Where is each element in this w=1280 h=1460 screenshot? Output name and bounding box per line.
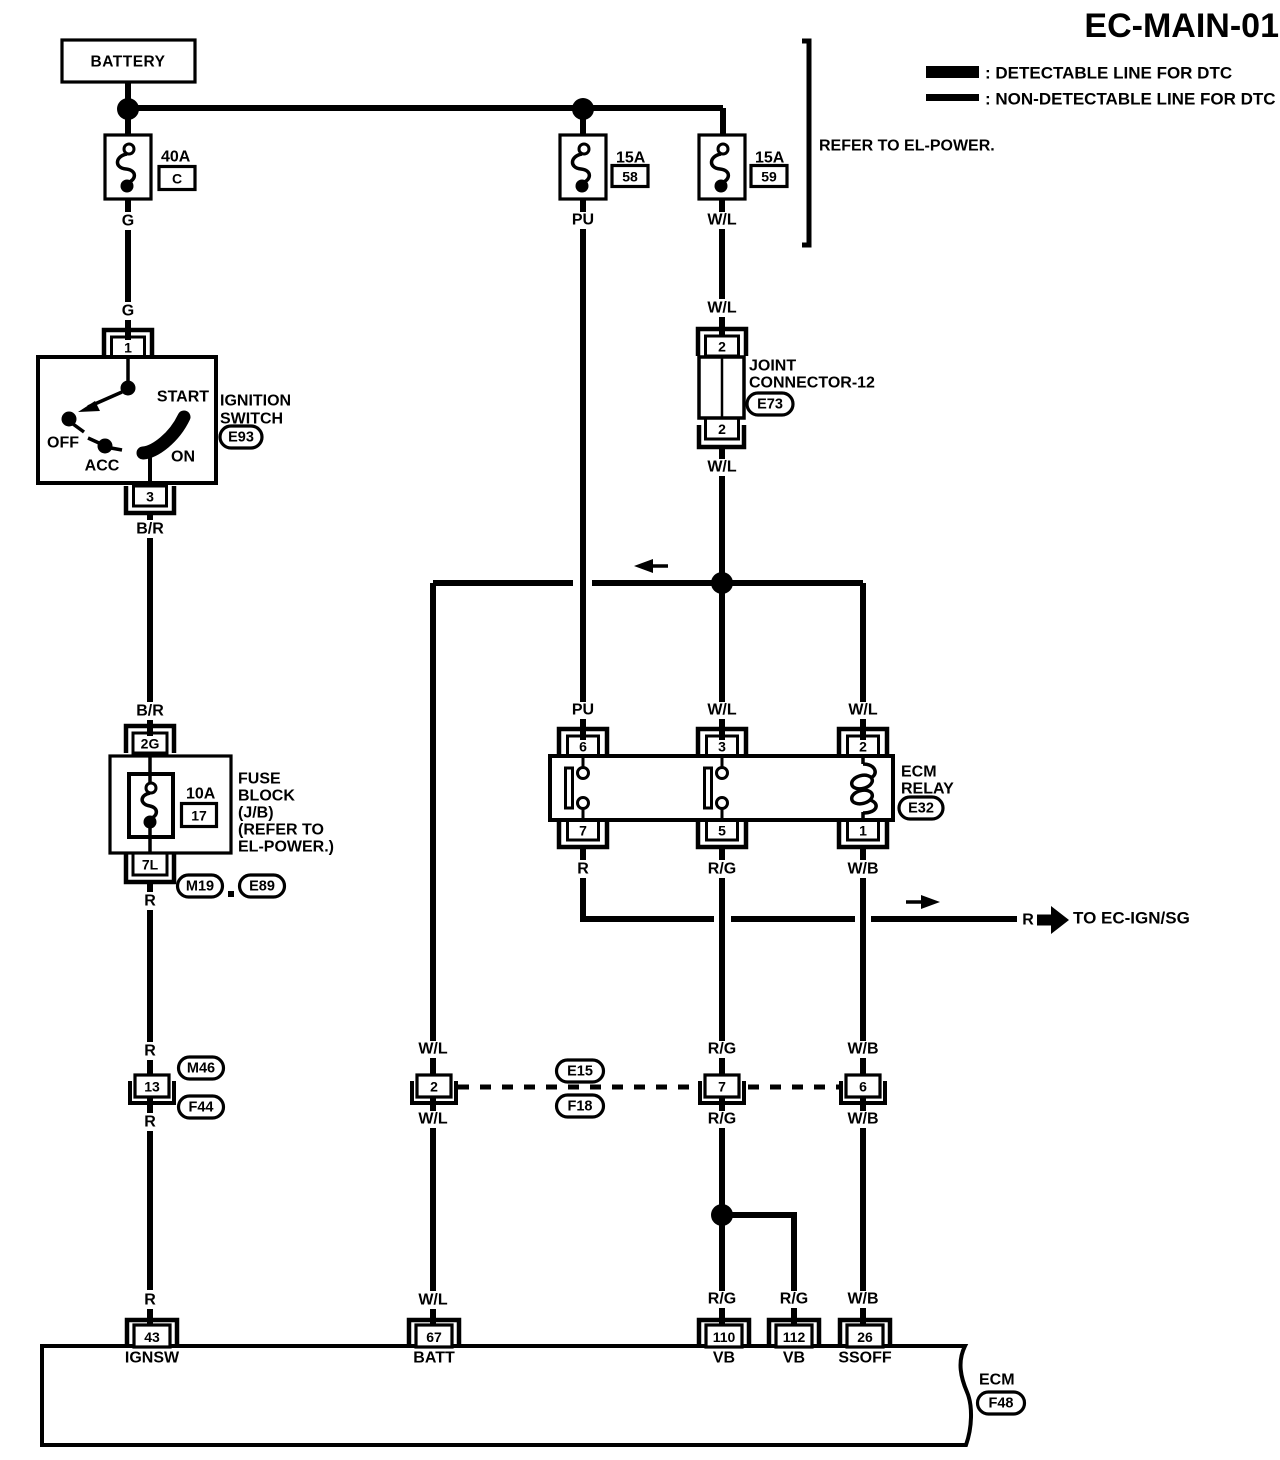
svg-text:W/B: W/B xyxy=(847,1041,878,1058)
svg-text:2G: 2G xyxy=(141,736,160,752)
svg-text:M46: M46 xyxy=(187,1061,215,1077)
svg-text:R: R xyxy=(144,1043,156,1060)
svg-text:3: 3 xyxy=(718,739,726,755)
svg-text:F44: F44 xyxy=(189,1100,214,1116)
svg-text:F48: F48 xyxy=(989,1396,1014,1412)
svg-text:START: START xyxy=(157,389,209,406)
svg-text:CONNECTOR-12: CONNECTOR-12 xyxy=(749,375,875,392)
svg-text:BATTERY: BATTERY xyxy=(91,54,166,71)
svg-text:2: 2 xyxy=(430,1079,438,1095)
svg-text:(REFER TO: (REFER TO xyxy=(238,822,324,839)
svg-text:R: R xyxy=(144,893,156,910)
svg-text:W/L: W/L xyxy=(848,702,878,719)
svg-text:3: 3 xyxy=(146,489,154,505)
svg-text:59: 59 xyxy=(761,169,777,185)
svg-text:6: 6 xyxy=(859,1079,867,1095)
svg-text:10A: 10A xyxy=(186,786,216,803)
svg-text:2: 2 xyxy=(718,339,726,355)
svg-text:F18: F18 xyxy=(568,1099,593,1115)
svg-text:17: 17 xyxy=(191,808,207,824)
svg-text:M19: M19 xyxy=(186,879,214,895)
svg-text:SSOFF: SSOFF xyxy=(838,1350,892,1367)
svg-text:EC-MAIN-01: EC-MAIN-01 xyxy=(1084,7,1279,45)
svg-text:OFF: OFF xyxy=(47,435,79,452)
svg-text:58: 58 xyxy=(622,169,638,185)
svg-text:R/G: R/G xyxy=(708,861,736,878)
svg-text:ACC: ACC xyxy=(85,458,120,475)
svg-text:VB: VB xyxy=(713,1350,735,1367)
svg-text:112: 112 xyxy=(783,1329,806,1345)
svg-text:G: G xyxy=(122,213,134,230)
svg-text:PU: PU xyxy=(572,702,594,719)
svg-text:W/L: W/L xyxy=(418,1292,448,1309)
svg-text:VB: VB xyxy=(783,1350,805,1367)
svg-text:BLOCK: BLOCK xyxy=(238,788,295,805)
svg-text:EL-POWER.): EL-POWER.) xyxy=(238,839,334,856)
svg-text:W/L: W/L xyxy=(707,702,737,719)
svg-text:1: 1 xyxy=(124,340,132,356)
svg-text:13: 13 xyxy=(144,1079,160,1095)
svg-text:40A: 40A xyxy=(161,149,191,166)
svg-text:7: 7 xyxy=(718,1079,726,1095)
svg-text:R: R xyxy=(144,1114,156,1131)
svg-text:IGNSW: IGNSW xyxy=(125,1350,180,1367)
svg-text:R: R xyxy=(577,861,589,878)
svg-text:RELAY: RELAY xyxy=(901,781,954,798)
svg-text:W/L: W/L xyxy=(707,300,737,317)
svg-text:W/B: W/B xyxy=(847,1111,878,1128)
svg-text:E32: E32 xyxy=(908,801,934,817)
svg-text:: DETECTABLE LINE FOR DTC: : DETECTABLE LINE FOR DTC xyxy=(985,64,1232,83)
svg-text:5: 5 xyxy=(718,823,726,839)
svg-text:W/B: W/B xyxy=(847,1291,878,1308)
svg-text:IGNITION: IGNITION xyxy=(220,393,291,410)
svg-text:E73: E73 xyxy=(757,397,783,413)
svg-text:W/L: W/L xyxy=(418,1041,448,1058)
svg-text:W/L: W/L xyxy=(707,459,737,476)
svg-text:JOINT: JOINT xyxy=(749,358,796,375)
svg-text:G: G xyxy=(122,303,134,320)
svg-text:ON: ON xyxy=(171,449,195,466)
svg-text:6: 6 xyxy=(579,739,587,755)
svg-text:B/R: B/R xyxy=(136,703,164,720)
svg-text:W/L: W/L xyxy=(707,212,737,229)
svg-text:PU: PU xyxy=(572,212,594,229)
svg-text:TO EC-IGN/SG: TO EC-IGN/SG xyxy=(1073,909,1190,928)
svg-text:R: R xyxy=(144,1292,156,1309)
svg-text:26: 26 xyxy=(857,1329,873,1345)
svg-text:R/G: R/G xyxy=(780,1291,808,1308)
svg-text:67: 67 xyxy=(426,1329,442,1345)
svg-text:C: C xyxy=(172,171,182,187)
svg-text:R/G: R/G xyxy=(708,1041,736,1058)
svg-text:43: 43 xyxy=(144,1329,160,1345)
svg-text:E89: E89 xyxy=(249,879,275,895)
svg-text:(J/B): (J/B) xyxy=(238,805,274,822)
svg-text:110: 110 xyxy=(713,1329,736,1345)
svg-text:ECM: ECM xyxy=(979,1372,1015,1389)
svg-text:R/G: R/G xyxy=(708,1291,736,1308)
svg-text:REFER TO EL-POWER.: REFER TO EL-POWER. xyxy=(819,138,995,155)
svg-text:ECM: ECM xyxy=(901,764,937,781)
svg-text:W/L: W/L xyxy=(418,1111,448,1128)
svg-text:R: R xyxy=(1022,912,1034,929)
svg-text:W/B: W/B xyxy=(847,861,878,878)
svg-text:B/R: B/R xyxy=(136,521,164,538)
svg-text:2: 2 xyxy=(718,421,726,437)
svg-text:E93: E93 xyxy=(228,430,254,446)
svg-text:1: 1 xyxy=(859,823,867,839)
svg-text:E15: E15 xyxy=(567,1064,593,1080)
svg-text:2: 2 xyxy=(859,739,867,755)
svg-text:7: 7 xyxy=(579,823,587,839)
svg-text:BATT: BATT xyxy=(413,1350,455,1367)
svg-text:FUSE: FUSE xyxy=(238,771,281,788)
svg-text:7L: 7L xyxy=(142,857,159,873)
svg-text:: NON-DETECTABLE LINE FOR DTC: : NON-DETECTABLE LINE FOR DTC xyxy=(985,90,1276,109)
svg-text:R/G: R/G xyxy=(708,1111,736,1128)
